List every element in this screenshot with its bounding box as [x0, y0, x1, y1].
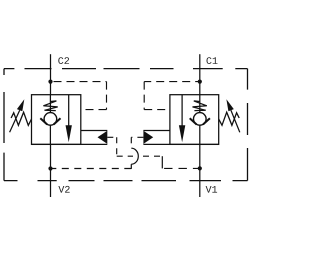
check spring right — [193, 101, 207, 111]
relief arrow shaft left (flow path) — [68, 95, 70, 128]
flow arrowhead left valve — [66, 125, 72, 142]
node dot V1 pilot junction — [198, 166, 202, 170]
port C2 line — [50, 54, 52, 94]
adjustment arrowhead left — [17, 99, 24, 111]
relief spring right (adjustable) — [219, 112, 240, 125]
seat right valve — [203, 118, 210, 124]
port V2 line — [50, 144, 52, 197]
pilot port line right valve outlet top — [143, 130, 170, 132]
pilot arrowhead into left valve — [98, 131, 108, 144]
node dot C1 pilot junction — [198, 80, 202, 84]
check spring left — [43, 101, 57, 111]
pilot line from C2 to left valve (internal pilot) — [51, 82, 107, 110]
manifold boundary left — [3, 69, 5, 181]
label V1 — [206, 186, 217, 193]
crossing hop stub — [130, 164, 132, 169]
node dot C2 pilot junction — [48, 80, 52, 84]
pilot port line left valve outlet top — [81, 130, 108, 132]
manifold boundary top — [4, 68, 248, 70]
wire C1 inside valve (through spring to ball) — [199, 95, 201, 113]
check ball left — [44, 113, 57, 126]
label V2 — [58, 186, 69, 193]
wire C2 inside valve (through spring to ball) — [49, 95, 51, 113]
wire ball to V2 — [49, 125, 51, 144]
cross pilot line V1 to left valve — [107, 137, 162, 156]
adjustment arrow shaft left — [10, 110, 20, 132]
pilot line from C1 to right valve (internal pilot) — [144, 82, 200, 110]
label C2 — [58, 57, 69, 64]
pilot arrowhead into right valve — [143, 131, 153, 144]
seat left valve — [40, 118, 47, 124]
box bottom extension right — [143, 143, 218, 145]
relief arrow shaft right (flow path) — [181, 95, 183, 128]
adjustment arrowhead right — [226, 99, 233, 111]
valve CB1 left body — [32, 95, 81, 145]
crossing hop arc — [131, 148, 138, 164]
node dot V2 pilot junction — [48, 166, 52, 170]
relief spring left (adjustable) — [11, 112, 31, 125]
adjustment arrow shaft right — [231, 110, 240, 132]
manifold boundary bottom — [4, 180, 248, 182]
flow arrowhead right valve — [179, 125, 185, 142]
manifold boundary right — [247, 69, 249, 181]
box bottom extension left — [32, 143, 108, 145]
cross pilot line V2 to right valve — [51, 137, 144, 168]
check ball right — [194, 113, 207, 126]
port V1 line — [199, 144, 201, 197]
wire ball to V1 — [199, 125, 201, 144]
port C1 line — [199, 54, 201, 94]
valve CB2 right body — [170, 95, 219, 145]
label C1 — [207, 57, 218, 64]
